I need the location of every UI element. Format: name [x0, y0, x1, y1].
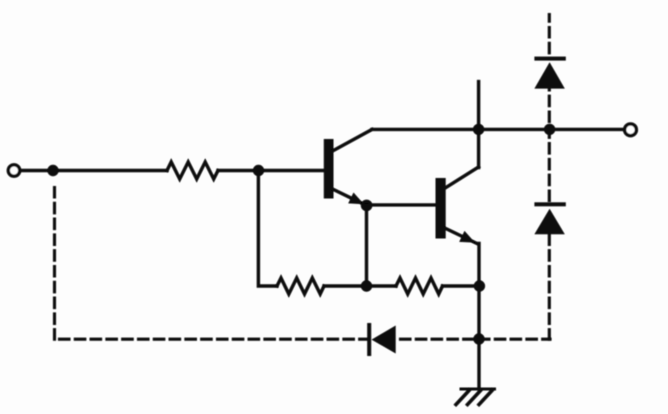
wire Q2 emitter down to ground node [477, 244, 480, 390]
wire dashed left vertical [53, 188, 56, 342]
resistor R2 [277, 278, 324, 294]
node J7 ground dashed junction [473, 333, 484, 344]
wire dashed right vertical lower [548, 234, 551, 339]
wire J2 down to R2 [258, 171, 277, 287]
input terminal [8, 165, 19, 176]
diode D3 [534, 202, 565, 234]
node J4 [474, 280, 485, 291]
wire input to R1 [21, 169, 167, 172]
wire J6 to Q2 base [367, 203, 436, 206]
wire collector stub vertical [477, 82, 480, 168]
wire dashed bottom left horizontal [60, 338, 368, 341]
resistor R1 [167, 162, 218, 179]
wire dashed bottom right horizontal [401, 338, 551, 341]
wire J3 to R3 [367, 284, 397, 287]
wire dashed right vertical top [548, 15, 551, 57]
wire R3 to node J4 [443, 284, 480, 287]
wire R2 to node J3 [324, 284, 367, 287]
node J1 input junction [47, 165, 58, 176]
wire R1 to Q1 base [218, 169, 325, 172]
node J6 Q1 emitter junction [361, 200, 373, 212]
transistor Q1 [324, 129, 372, 204]
resistor R3 [396, 278, 443, 294]
node J2 base junction [253, 165, 264, 176]
wire dashed right vertical middle [548, 89, 551, 203]
node J3 [361, 280, 372, 291]
output terminal [625, 124, 637, 136]
transistor Q2 [436, 167, 479, 244]
node J8 output diode junction [544, 124, 555, 135]
node J5 collector junction [473, 124, 484, 135]
wire top horizontal to output [372, 128, 623, 131]
ground [456, 389, 495, 405]
wire J6 down to J3 [365, 206, 368, 286]
diode D2 [534, 57, 565, 89]
diode D1 [367, 323, 396, 356]
